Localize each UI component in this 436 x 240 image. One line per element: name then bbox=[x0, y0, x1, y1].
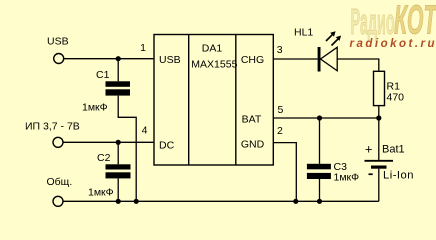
capacitor C3 bbox=[307, 118, 331, 201]
wire pin 5 BAT bbox=[273, 117, 379, 119]
junction BAT / R1 / battery bbox=[376, 115, 381, 120]
wire pin 3 CHG to LED bbox=[273, 58, 317, 60]
svg-text:5: 5 bbox=[278, 104, 284, 116]
svg-text:1мкФ: 1мкФ bbox=[88, 187, 114, 199]
svg-text:3: 3 bbox=[277, 44, 283, 56]
junction on DC wire (C2 tap) bbox=[116, 140, 121, 145]
svg-text:R1: R1 bbox=[387, 81, 401, 93]
LED HL1 bbox=[318, 31, 342, 71]
svg-text:Bat1: Bat1 bbox=[382, 144, 405, 156]
svg-text:1: 1 bbox=[140, 42, 146, 54]
svg-text:MAX1555: MAX1555 bbox=[191, 59, 237, 71]
svg-text:USB: USB bbox=[159, 54, 181, 66]
junction on USB wire (C1 tap) bbox=[116, 56, 121, 61]
ground rail wire bbox=[63, 200, 379, 202]
battery Bat1 bbox=[365, 118, 394, 201]
svg-text:КОТ: КОТ bbox=[394, 0, 436, 42]
watermark radiokot logo bbox=[350, 0, 436, 50]
svg-text:GND: GND bbox=[241, 139, 265, 151]
svg-text:USB: USB bbox=[47, 35, 69, 47]
terminal Общ. (common/ground) bbox=[53, 196, 63, 206]
svg-text:CHG: CHG bbox=[241, 54, 264, 66]
capacitor C1 bbox=[106, 59, 137, 202]
svg-text:470: 470 bbox=[387, 92, 405, 104]
svg-text:DC: DC bbox=[159, 140, 175, 152]
wire R1 bottom to BAT node bbox=[378, 106, 380, 118]
svg-text:HL1: HL1 bbox=[294, 27, 313, 39]
svg-text:Радио: Радио bbox=[351, 1, 395, 42]
svg-text:C1: C1 bbox=[96, 69, 110, 81]
wire USB terminal to pin 1 bbox=[64, 58, 154, 60]
battery minus sign bbox=[369, 173, 373, 175]
terminal USB bbox=[54, 54, 64, 64]
svg-text:4: 4 bbox=[142, 125, 148, 137]
junction rail / C1 bbox=[134, 199, 139, 204]
terminal DC input bbox=[53, 137, 63, 147]
svg-text:C2: C2 bbox=[97, 152, 111, 164]
IC U1 DA1 MAX1555 body bbox=[154, 35, 273, 166]
svg-text:2: 2 bbox=[277, 125, 283, 137]
junction rail / C2 bbox=[116, 199, 121, 204]
junction rail / C3 bbox=[317, 199, 322, 204]
svg-text:BAT: BAT bbox=[242, 113, 262, 125]
wire DC terminal to pin 4 bbox=[63, 141, 154, 143]
resistor R1 bbox=[374, 71, 385, 105]
junction BAT / C3 bbox=[317, 115, 322, 120]
svg-text:DA1: DA1 bbox=[202, 42, 223, 54]
svg-text:1мкФ: 1мкФ bbox=[82, 102, 108, 114]
svg-text:Общ.: Общ. bbox=[47, 176, 73, 188]
capacitor C2 bbox=[106, 142, 131, 201]
wire LED to R1 corner bbox=[337, 59, 379, 71]
junction rail / GND pin wire bbox=[293, 199, 298, 204]
wire pin 2 GND down to rail bbox=[273, 143, 296, 202]
svg-text:1мкФ: 1мкФ bbox=[334, 172, 360, 184]
svg-text:+: + bbox=[365, 141, 373, 156]
svg-text:radiokot.ru: radiokot.ru bbox=[350, 38, 436, 50]
svg-text:ИП 3,7 - 7В: ИП 3,7 - 7В bbox=[25, 121, 80, 133]
svg-text:Li-Ion: Li-Ion bbox=[383, 170, 414, 182]
